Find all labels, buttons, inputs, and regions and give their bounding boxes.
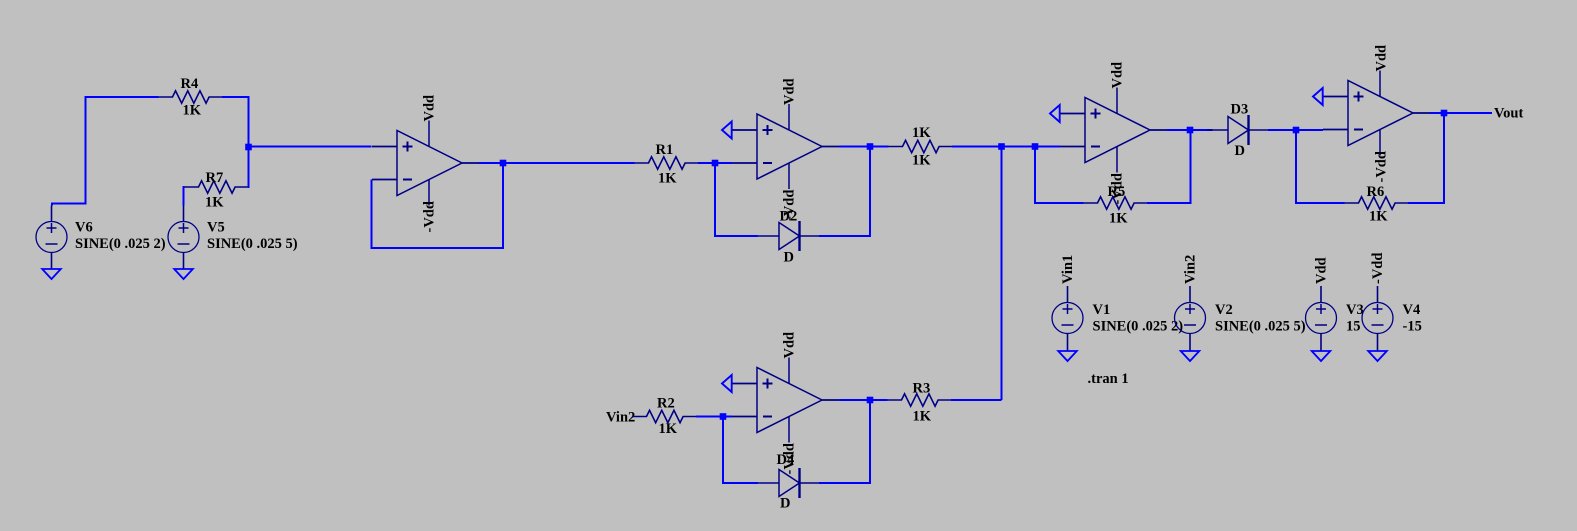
node at U5 output	[1441, 110, 1448, 117]
svg-text:D: D	[784, 250, 794, 266]
V2 ground stub	[1189, 334, 1191, 352]
svg-text:1K: 1K	[205, 195, 224, 211]
node at U4 output	[1187, 127, 1194, 134]
feedback wire U3 -in down to D4	[723, 417, 758, 484]
voltage source V3	[1306, 303, 1337, 334]
V2 top stub	[1189, 286, 1191, 303]
svg-text:D4: D4	[777, 452, 795, 468]
svg-text:1K: 1K	[659, 421, 678, 437]
svg-text:D: D	[1235, 143, 1245, 159]
svg-text:V3: V3	[1346, 302, 1364, 318]
op-amp U1	[372, 121, 479, 206]
node at U5 -in	[1293, 127, 1300, 134]
wire V5 to R7	[184, 187, 185, 206]
V5 ground stub	[183, 253, 185, 270]
V3 top stub	[1320, 286, 1322, 303]
svg-text:Vdd: Vdd	[1110, 62, 1126, 89]
svg-text:V5: V5	[207, 220, 225, 236]
ground arrow at U3 +in	[722, 375, 732, 392]
svg-text:SINE(0 .025 2): SINE(0 .025 2)	[75, 236, 166, 252]
svg-text:D2: D2	[780, 209, 798, 225]
wire R7 to summing node	[247, 148, 250, 187]
wire D3 to U5 -in	[1268, 129, 1323, 131]
ground below V1	[1058, 351, 1077, 361]
svg-text:R4: R4	[181, 76, 199, 92]
wire U1 output to node	[479, 162, 503, 164]
V6 ground stub	[51, 253, 53, 270]
svg-text:Vin2: Vin2	[1183, 255, 1199, 284]
long vertical wire to R3	[1001, 147, 1003, 401]
voltage source V2	[1175, 303, 1206, 334]
diode D2	[758, 221, 819, 251]
diode D3	[1207, 115, 1268, 145]
ground below V5	[174, 269, 193, 279]
svg-text:D: D	[780, 496, 790, 512]
wire R1 to U2 -in node	[698, 162, 732, 164]
voltage source V4	[1362, 303, 1393, 334]
node at U2 -in	[712, 160, 719, 167]
ground arrow at U5 +in	[1313, 88, 1323, 105]
V1 top stub	[1067, 286, 1069, 303]
svg-text:1K: 1K	[1369, 209, 1388, 225]
op-amp U5	[1323, 71, 1430, 156]
svg-text:V2: V2	[1215, 302, 1233, 318]
svg-text:R7: R7	[206, 170, 224, 186]
svg-text:1K: 1K	[1109, 211, 1128, 227]
V4 ground stub	[1377, 334, 1379, 352]
svg-text:SINE(0 .025 5): SINE(0 .025 5)	[1215, 319, 1306, 335]
svg-text:1K: 1K	[912, 125, 931, 141]
svg-text:-Vdd: -Vdd	[1370, 253, 1386, 284]
svg-text:Vdd: Vdd	[782, 78, 798, 105]
voltage source V1	[1052, 303, 1083, 334]
wire from V6 to R4	[52, 97, 159, 206]
wire 1K resistor to U4 -in	[952, 146, 1060, 148]
voltage source V5	[168, 222, 199, 253]
resistor R1	[635, 157, 700, 169]
svg-text:SINE(0 .025 5): SINE(0 .025 5)	[207, 236, 298, 252]
resistor R6	[1345, 197, 1410, 209]
svg-text:R5: R5	[1108, 184, 1126, 200]
svg-text:V6: V6	[75, 220, 93, 236]
svg-text:Vout: Vout	[1494, 106, 1523, 122]
wire D4 to U3 output	[819, 400, 870, 483]
resistor R5	[1084, 197, 1149, 209]
node at U3 output	[867, 397, 874, 404]
svg-text:-Vdd: -Vdd	[422, 201, 438, 232]
svg-text:.tran 1: .tran 1	[1088, 371, 1129, 387]
svg-text:Vdd: Vdd	[1374, 45, 1390, 72]
svg-text:-15: -15	[1403, 319, 1422, 335]
op-amp U4	[1060, 88, 1167, 173]
svg-text:R6: R6	[1367, 184, 1385, 200]
diode D4	[758, 468, 819, 498]
op-amp U2	[732, 104, 839, 189]
wire R2 to U3 -in	[696, 416, 732, 418]
node at U2 output	[867, 143, 874, 150]
svg-text:SINE(0 .025 2): SINE(0 .025 2)	[1093, 319, 1184, 335]
wire U1 out to R1	[503, 162, 635, 164]
voltage source V6	[36, 222, 67, 253]
ground below V6	[42, 269, 61, 279]
wire U4 output	[1167, 129, 1213, 131]
svg-text:D3: D3	[1231, 102, 1249, 118]
svg-text:1K: 1K	[913, 409, 932, 425]
wire U2 output	[839, 146, 889, 148]
svg-text:V1: V1	[1093, 302, 1111, 318]
wire R5 to U4 output	[1147, 130, 1191, 203]
V1 ground stub	[1067, 334, 1069, 352]
resistor R3	[888, 394, 953, 406]
ground below V4	[1368, 351, 1387, 361]
feedback wire U2 -in down to D2	[715, 163, 758, 236]
ground arrow at U4 +in	[1050, 105, 1060, 122]
svg-text:R3: R3	[913, 381, 931, 397]
V3 ground stub	[1320, 334, 1322, 352]
svg-text:Vin2: Vin2	[606, 410, 635, 426]
feedback wire U1 output to -in	[372, 166, 504, 248]
node at R4/R7 junction	[245, 144, 252, 151]
wire D2 to U2 output	[819, 147, 870, 237]
svg-text:-Vdd: -Vdd	[1374, 151, 1390, 182]
wire R3 to vertical node	[951, 399, 1002, 401]
ground below V2	[1181, 351, 1200, 361]
node at U3 -in	[720, 413, 727, 420]
feedback wire U4 -in down to R5	[1035, 147, 1084, 204]
V5 top pin stub	[183, 206, 185, 222]
resistor R2	[633, 410, 698, 422]
svg-text:R1: R1	[656, 142, 674, 158]
V6 top pin stub	[51, 206, 53, 222]
node to bottom branch	[998, 143, 1005, 150]
node at U4 feedback	[1032, 143, 1039, 150]
svg-text:Vin1: Vin1	[1060, 255, 1076, 284]
wire R6 to U5 output	[1408, 113, 1444, 203]
svg-text:V4: V4	[1403, 302, 1421, 318]
wire U5 output	[1430, 112, 1492, 114]
svg-text:15: 15	[1346, 319, 1361, 335]
ground below V3	[1312, 351, 1331, 361]
ground arrow at U2 +in	[722, 122, 732, 139]
resistor R7	[185, 181, 250, 193]
feedback wire U5 -in down to R6	[1296, 130, 1345, 203]
svg-text:1K: 1K	[183, 103, 202, 119]
svg-text:Vdd: Vdd	[422, 95, 438, 122]
svg-text:1K: 1K	[658, 171, 677, 187]
svg-text:R2: R2	[657, 396, 675, 412]
op-amp U3	[732, 358, 839, 443]
svg-text:Vdd: Vdd	[782, 332, 798, 359]
svg-text:1K: 1K	[912, 153, 931, 169]
svg-text:Vdd: Vdd	[1314, 257, 1330, 284]
resistor R4	[159, 91, 224, 103]
V4 top stub	[1377, 286, 1379, 303]
wire node to U1 +in	[249, 146, 372, 148]
wire U3 output	[839, 399, 888, 401]
node at U1 output	[500, 160, 507, 167]
wire R4 to summing node	[222, 97, 249, 147]
resistor named 1K	[889, 140, 954, 152]
